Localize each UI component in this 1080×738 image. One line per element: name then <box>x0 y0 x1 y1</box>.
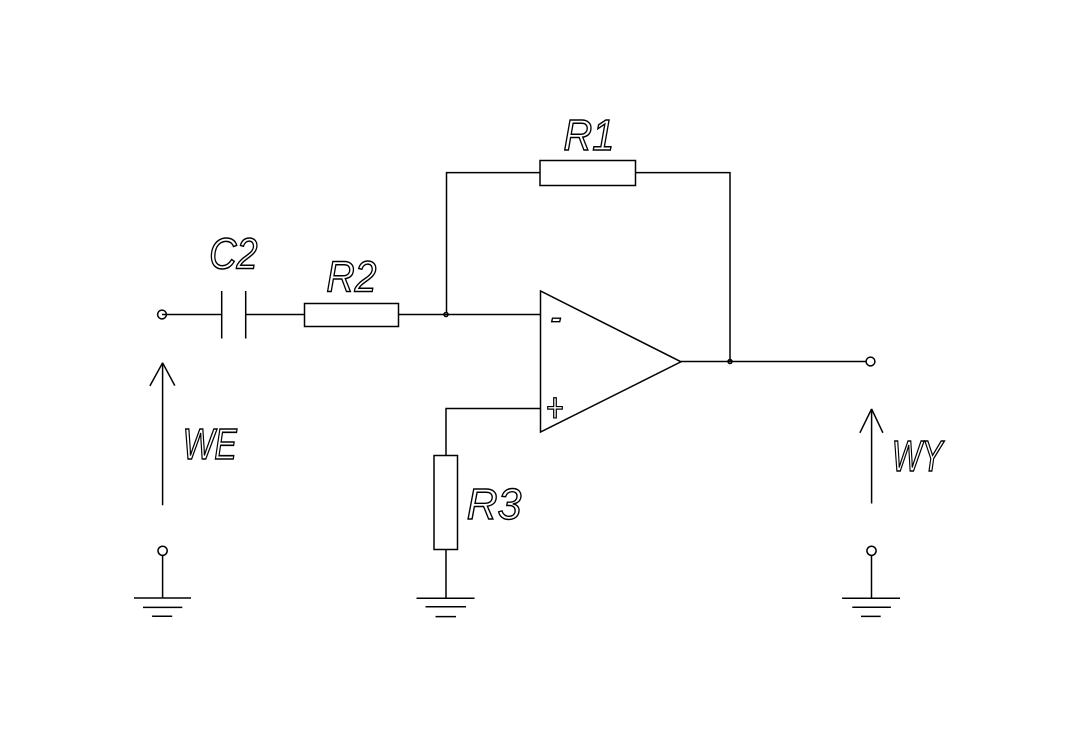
svg-text:R1: R1 <box>564 110 615 159</box>
svg-text:R2: R2 <box>326 253 376 301</box>
svg-text:C2: C2 <box>209 229 258 278</box>
svg-text:WY: WY <box>892 433 945 481</box>
svg-text:R3: R3 <box>467 481 522 529</box>
svg-text:WE: WE <box>183 421 238 469</box>
